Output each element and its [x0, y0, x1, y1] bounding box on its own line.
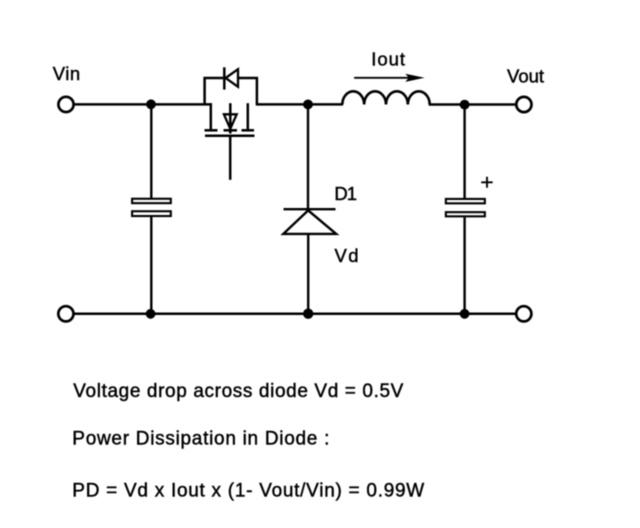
transistor Q1 body-diode cathode bar	[223, 67, 226, 89]
transistor Q1 drain leg	[210, 103, 213, 129]
node top-left junction (input cap tap)	[146, 99, 156, 109]
diode D1 triangle (anode, pointing up)	[283, 210, 336, 234]
terminal ground-left (bottom-left open circle)	[58, 306, 73, 321]
inductor L (4 humps)	[342, 91, 429, 104]
terminal ground-right (bottom-right open circle)	[516, 306, 531, 321]
svg-text:Vin: Vin	[53, 63, 81, 84]
wire input-cap bottom lead	[150, 217, 152, 314]
transistor Q1 gate bar	[205, 135, 255, 138]
diode D1 cathode bar	[284, 208, 336, 210]
wire output-cap bottom lead	[463, 217, 465, 313]
capacitor Cout plus sign	[481, 177, 493, 188]
wire top rail: Vin to MOSFET drain	[75, 103, 212, 106]
node bottom-middle junction	[303, 309, 313, 319]
node bottom-left junction	[146, 309, 156, 319]
svg-text:Iout: Iout	[371, 49, 406, 70]
wire input-cap top lead	[150, 104, 152, 198]
wire top rail: MOSFET source to inductor	[256, 103, 343, 106]
capacitor Cin bottom plate	[132, 211, 171, 216]
terminal Vin (top-left open circle)	[58, 97, 73, 112]
terminal Vout (top-right open circle)	[516, 97, 531, 112]
transistor Q1 body contact bar	[224, 129, 238, 132]
wire diode D1 bottom lead	[307, 235, 309, 314]
transistor Q1 P-MOSFET body-diode loop left side	[205, 78, 223, 104]
wire top rail: inductor to Vout	[429, 103, 517, 106]
capacitor Cout top plate	[446, 199, 485, 203]
transistor Q1 gate lead	[229, 136, 232, 180]
node top-middle junction (diode D1 tap)	[303, 100, 313, 110]
transistor Q1 body arrow triangle	[224, 114, 237, 129]
svg-text:Vd: Vd	[335, 245, 360, 266]
node top-right junction (output cap tap)	[460, 100, 470, 110]
transistor Q1 body-diode loop right side	[238, 78, 257, 104]
transistor Q1 body-diode triangle	[226, 69, 238, 87]
transistor Q1 drain contact bar	[205, 129, 218, 132]
wire output-cap top lead	[463, 105, 465, 199]
capacitor Cin top plate	[132, 199, 171, 203]
svg-text:Voltage drop across diode Vd =: Voltage drop across diode Vd = 0.5V	[73, 381, 404, 402]
svg-text:PD = Vd x Iout x (1- Vout/Vin): PD = Vd x Iout x (1- Vout/Vin) = 0.99W	[72, 480, 425, 501]
svg-text:Vout: Vout	[507, 66, 544, 87]
capacitor Cout bottom plate	[446, 212, 485, 216]
wire diode D1 top lead	[307, 104, 309, 209]
Iout current arrow	[354, 74, 425, 82]
transistor Q1 body shaft	[229, 103, 232, 133]
node bottom-right junction	[460, 309, 470, 319]
svg-text:D1: D1	[334, 183, 356, 204]
svg-text:Power Dissipation in Diode :: Power Dissipation in Diode :	[72, 428, 330, 449]
transistor Q1 source contact bar	[242, 129, 255, 132]
wire bottom rail	[75, 313, 517, 316]
transistor Q1 source leg	[247, 103, 250, 129]
